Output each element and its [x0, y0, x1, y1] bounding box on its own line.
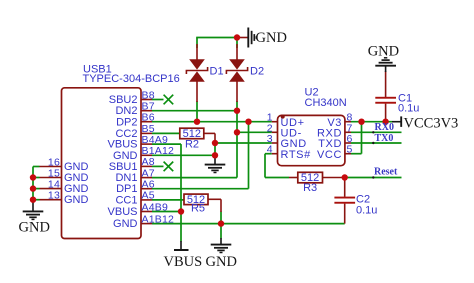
svg-text:SBU1: SBU1: [109, 161, 138, 173]
svg-text:R3: R3: [303, 182, 317, 194]
svg-text:D1: D1: [210, 66, 224, 78]
svg-text:TX0: TX0: [375, 133, 394, 144]
svg-text:RTS#: RTS#: [281, 149, 312, 161]
svg-text:D2: D2: [250, 66, 264, 78]
svg-text:VBUS: VBUS: [108, 139, 138, 151]
svg-text:A6: A6: [142, 179, 155, 191]
svg-text:GND: GND: [206, 254, 237, 270]
svg-text:R2: R2: [185, 139, 199, 151]
svg-text:A1B12: A1B12: [142, 213, 175, 225]
svg-text:GND: GND: [256, 30, 287, 46]
svg-text:VBUS: VBUS: [108, 206, 138, 218]
svg-text:4: 4: [267, 144, 273, 156]
svg-text:Reset: Reset: [374, 167, 398, 178]
svg-text:VCC: VCC: [317, 149, 342, 161]
svg-text:R5: R5: [191, 203, 205, 215]
svg-text:RX0: RX0: [375, 122, 394, 133]
svg-text:0.1u: 0.1u: [356, 205, 377, 217]
svg-text:A5: A5: [142, 190, 155, 202]
svg-text:DP1: DP1: [116, 183, 137, 195]
svg-text:TYPEC-304-BCP16: TYPEC-304-BCP16: [83, 73, 180, 85]
svg-text:DP2: DP2: [116, 116, 137, 128]
svg-text:0.1u: 0.1u: [398, 103, 419, 115]
svg-text:SBU2: SBU2: [109, 94, 138, 106]
svg-text:GND: GND: [368, 44, 399, 60]
svg-text:13: 13: [48, 190, 60, 202]
svg-text:B4A9: B4A9: [142, 134, 169, 146]
svg-text:B8: B8: [142, 89, 155, 101]
svg-text:B6: B6: [142, 112, 155, 124]
svg-text:A8: A8: [142, 156, 155, 168]
svg-text:CC1: CC1: [115, 194, 137, 206]
svg-text:5: 5: [347, 144, 353, 156]
svg-text:CH340N: CH340N: [305, 97, 347, 109]
svg-text:GND: GND: [64, 194, 89, 206]
svg-text:GND: GND: [19, 220, 50, 236]
svg-text:GND: GND: [113, 218, 138, 230]
svg-text:VCC3V3: VCC3V3: [404, 116, 459, 132]
svg-text:A4B9: A4B9: [142, 201, 169, 213]
svg-text:VBUS: VBUS: [164, 254, 203, 270]
